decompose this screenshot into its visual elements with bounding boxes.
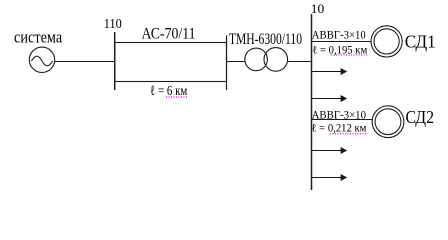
svg-text:110: 110 xyxy=(104,16,122,31)
svg-text:АВВГ-3×10: АВВГ-3×10 xyxy=(312,28,366,41)
svg-text:10: 10 xyxy=(311,2,325,16)
svg-text:система: система xyxy=(14,28,63,47)
svg-text:СД1: СД1 xyxy=(405,32,436,52)
svg-text:ℓ = 0,212 км: ℓ = 0,212 км xyxy=(311,123,367,135)
svg-text:АВВГ-3×10: АВВГ-3×10 xyxy=(312,108,367,121)
svg-text:СД2: СД2 xyxy=(406,107,435,127)
svg-text:ℓ = 0,195 км: ℓ = 0,195 км xyxy=(312,45,368,57)
svg-text:ℓ = 6 км: ℓ = 6 км xyxy=(150,84,187,99)
svg-text:АС-70/11: АС-70/11 xyxy=(142,25,196,42)
svg-text:ТМН-6300/110: ТМН-6300/110 xyxy=(229,31,302,48)
